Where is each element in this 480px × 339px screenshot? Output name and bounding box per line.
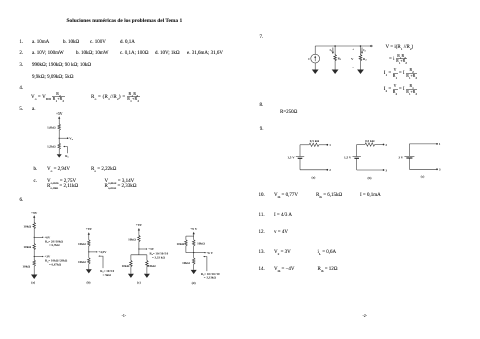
output terminal [370, 45, 372, 47]
svg-text:(a): (a) [311, 176, 315, 180]
resistor 0,5k [365, 143, 375, 146]
svg-text:10kΩ: 10kΩ [23, 245, 31, 249]
svg-text:= 6,67kΩ: = 6,67kΩ [49, 263, 62, 267]
battery short plate (9c) [406, 157, 412, 159]
svg-text:1,0kΩ: 1,0kΩ [47, 125, 56, 129]
svg-text:10kΩ: 10kΩ [197, 242, 205, 246]
wire [334, 61, 336, 69]
ground [31, 275, 37, 280]
top wire [300, 144, 309, 146]
svg-text:(d): (d) [192, 281, 196, 285]
terminal dot +3V [42, 256, 43, 257]
node +3V [34, 256, 35, 257]
wire [88, 233, 90, 239]
terminal 3 (9c) [436, 168, 438, 170]
node +6V (6d) [193, 252, 194, 253]
wire [193, 233, 195, 240]
node Vo [59, 138, 60, 139]
wire [33, 267, 35, 275]
svg-text:Ro: Ro [65, 154, 69, 159]
ground R1 [332, 70, 339, 75]
terminal 3 (9b) [383, 169, 385, 171]
wire [146, 267, 148, 274]
svg-text:0,5 kΩ: 0,5 kΩ [365, 139, 375, 143]
wire to +6V terminal [34, 236, 42, 238]
battery 1,5V [296, 156, 304, 158]
wire [33, 217, 35, 223]
circuit 6c [122, 223, 169, 284]
ground source [312, 70, 319, 75]
node junction R2 [360, 45, 362, 47]
battery 3V [404, 155, 414, 157]
circuit 9a [287, 139, 331, 180]
svg-text:R1: R1 [338, 56, 342, 61]
Ro arrow bend line [65, 147, 68, 154]
svg-text:= 5kΩ: = 5kΩ [103, 273, 112, 277]
left branch wire [130, 255, 132, 261]
left wire [299, 145, 301, 157]
svg-text:+9V: +9V [86, 227, 93, 231]
Ro arrow [98, 255, 100, 256]
left wire [408, 144, 410, 156]
svg-text:1,5kΩ: 1,5kΩ [47, 144, 56, 148]
circuit 9c [398, 142, 440, 178]
wire [138, 229, 140, 235]
resistor 0,5k [309, 143, 319, 146]
wire below battery (9b) [356, 158, 358, 170]
bottom wire to terminal 2 [300, 169, 327, 171]
svg-text:+9V: +9V [136, 223, 143, 227]
wire source top [314, 46, 316, 54]
svg-text:I2: I2 [363, 48, 366, 53]
I2 arrow [361, 48, 363, 53]
svg-text:+6 V: +6 V [206, 251, 213, 255]
resistor R2 [359, 54, 362, 61]
circuit 6a [22, 211, 67, 285]
resistor 10k right [146, 260, 149, 267]
svg-text:= 3,33kΩ: = 3,33kΩ [204, 276, 217, 280]
right branch wire [146, 255, 148, 261]
output terminal Vo [67, 137, 69, 139]
I1 arrow [332, 48, 334, 53]
wire to output [59, 137, 67, 139]
svg-text:1: 1 [439, 142, 441, 146]
battery short plate (9b) [354, 157, 359, 159]
resistor R1 1,0k [58, 124, 61, 131]
terminal 2 (9b) [383, 144, 385, 146]
svg-text:(a): (a) [31, 281, 35, 285]
resistor 10k left [130, 260, 133, 267]
bottom wire to terminal 3 [409, 168, 436, 170]
node junction R1 [334, 45, 336, 47]
svg-text:V: V [351, 57, 354, 61]
ground [86, 269, 92, 273]
wire R1 branch [334, 46, 336, 54]
svg-text:10kΩ: 10kΩ [177, 242, 185, 246]
svg-text:+: + [352, 47, 354, 51]
resistor 10k right [192, 240, 195, 247]
svg-text:Vo: Vo [69, 137, 73, 142]
wire right branch lower [193, 246, 195, 258]
circuit 9b [344, 139, 387, 180]
svg-text:+9V: +9V [31, 211, 38, 215]
svg-text:2: 2 [385, 143, 387, 147]
wire [58, 131, 60, 143]
resistor 10k bottom [192, 258, 195, 265]
wire to +3V terminal [34, 256, 42, 258]
bottom wire to terminal 3 [357, 169, 383, 171]
resistor R1 [334, 54, 337, 61]
bottom split bar wire [186, 252, 194, 254]
wire [88, 264, 90, 269]
wire [88, 247, 90, 258]
top wire to terminal 1 [409, 143, 436, 145]
supply arrow [58, 116, 60, 119]
resistor 10k [33, 260, 36, 267]
ground left [128, 274, 134, 278]
wire to +3V terminal (6c) [139, 248, 146, 250]
top split bar [186, 235, 194, 237]
top wire [357, 144, 365, 146]
wire below battery (9c) [408, 158, 410, 169]
svg-text:10kΩ: 10kΩ [182, 261, 190, 265]
Ro arrow [63, 146, 65, 147]
terminal dot +4,5V [96, 251, 97, 252]
wire to terminal 2 [375, 144, 383, 146]
Ro arrow [203, 256, 205, 257]
resistor 10k [33, 244, 36, 251]
svg-text:3 V: 3 V [398, 155, 403, 159]
svg-text:+5V: +5V [56, 112, 63, 116]
wire [33, 229, 35, 243]
wire to +6V terminal [194, 252, 205, 254]
Ro arrow bend line (6b) [100, 256, 103, 268]
wire source bottom [314, 63, 316, 70]
svg-text:I: I [308, 57, 310, 61]
svg-text:(b): (b) [86, 281, 90, 285]
svg-text:R2: R2 [363, 57, 367, 62]
wire to +4,5V terminal [89, 251, 96, 253]
wire [33, 250, 35, 259]
svg-text:3: 3 [439, 168, 441, 172]
svg-text:1,5 V: 1,5 V [344, 156, 352, 160]
svg-text:10kΩ: 10kΩ [78, 260, 86, 264]
wire [138, 242, 140, 255]
wire left branch lower [185, 246, 187, 252]
ground [191, 270, 197, 274]
terminal 1 (9c) [436, 143, 438, 145]
resistor 10k [33, 222, 36, 229]
svg-text:10kΩ: 10kΩ [22, 264, 30, 268]
current source I [311, 54, 320, 63]
svg-text:= 6,7kΩ: = 6,7kΩ [49, 243, 60, 247]
svg-text:1,5 V: 1,5 V [287, 156, 295, 160]
svg-text:−: − [352, 66, 354, 70]
resistor 10k [88, 258, 91, 265]
svg-text:0,5 kΩ: 0,5 kΩ [310, 139, 320, 143]
svg-text:(c): (c) [137, 280, 141, 284]
terminal dot +3V (6c) [146, 248, 147, 249]
terminal dot +6V (6d) [204, 252, 205, 253]
wire below battery (9a) [299, 158, 301, 170]
source arrow shaft [314, 57, 316, 61]
top wire [315, 45, 370, 47]
node +3V [138, 248, 139, 249]
wire [58, 150, 60, 155]
wire to terminal 1 [319, 144, 327, 146]
svg-text:3: 3 [385, 168, 387, 172]
wire left branch [185, 236, 187, 240]
terminal 1 (9a) [326, 144, 328, 146]
circuit 6d [177, 227, 220, 285]
resistor 10k [138, 235, 141, 242]
wire [360, 61, 362, 69]
node +4,5V [88, 251, 89, 252]
wire [130, 267, 132, 274]
resistor 10k [88, 239, 91, 246]
svg-text:10kΩ: 10kΩ [122, 264, 130, 268]
svg-text:= 3,33 kΩ: = 3,33 kΩ [152, 255, 165, 259]
svg-text:10kΩ: 10kΩ [148, 264, 156, 268]
circuit 6b [78, 227, 115, 284]
svg-text:(b): (b) [367, 176, 371, 180]
battery short plate (9a) [298, 157, 303, 159]
wire R2 branch [360, 46, 362, 54]
left wire [356, 145, 358, 157]
svg-text:10kΩ: 10kΩ [23, 225, 31, 229]
terminal 2 (9a) [326, 169, 328, 171]
svg-text:+4,5V: +4,5V [98, 250, 107, 254]
ground [57, 154, 62, 157]
resistor 10k left [185, 240, 188, 247]
ground R2 [357, 70, 364, 75]
svg-text:1: 1 [329, 143, 331, 147]
svg-text:10kΩ: 10kΩ [78, 242, 86, 246]
terminal dot +6V [42, 237, 43, 238]
Ro arrow bend line (6d) [205, 257, 207, 272]
svg-text:2: 2 [329, 168, 331, 172]
svg-text:(c): (c) [421, 175, 425, 179]
wire [58, 118, 60, 124]
resistor R2 1,5k [58, 143, 61, 150]
split bar [131, 254, 147, 256]
svg-text:+9 V: +9 V [190, 227, 198, 231]
ground right [144, 274, 150, 278]
wire [193, 265, 195, 270]
battery 1,5V [353, 156, 361, 158]
node +6V [34, 237, 35, 238]
svg-text:10kΩ: 10kΩ [128, 237, 136, 241]
